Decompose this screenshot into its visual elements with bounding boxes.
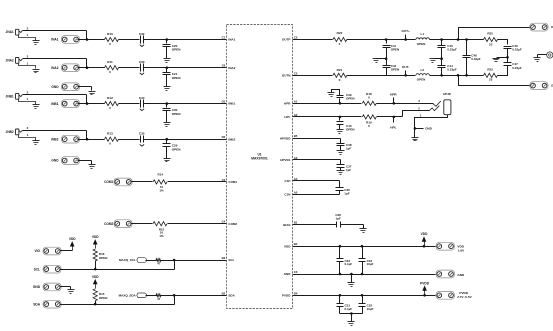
svg-text:10µF: 10µF (367, 307, 374, 311)
svg-text:OUTN: OUTN (282, 73, 291, 77)
svg-text:PVDD: PVDD (282, 293, 291, 297)
svg-text:10µF: 10µF (367, 262, 374, 266)
svg-text:VDD: VDD (92, 275, 99, 279)
svg-text:0: 0 (339, 78, 341, 82)
svg-text:HPL: HPL (284, 115, 290, 119)
svg-text:OPEN: OPEN (172, 48, 182, 52)
svg-text:C35: C35 (139, 132, 145, 136)
svg-text:B4: B4 (294, 242, 298, 246)
svg-text:A4: A4 (294, 177, 298, 181)
svg-text:GND: GND (51, 159, 59, 163)
svg-text:OUT-: OUT- (402, 65, 409, 69)
svg-text:B1: B1 (294, 221, 298, 225)
svg-text:R13: R13 (107, 132, 113, 136)
svg-text:47: 47 (157, 262, 161, 266)
svg-text:OPEN: OPEN (346, 97, 355, 101)
svg-text:SDA: SDA (228, 293, 235, 297)
svg-text:HPJK: HPJK (443, 92, 452, 96)
svg-text:R16: R16 (99, 252, 105, 256)
svg-text:R22: R22 (487, 32, 493, 36)
svg-text:OPEN: OPEN (99, 256, 108, 260)
svg-text:VDD: VDD (284, 244, 291, 248)
svg-text:C5: C5 (294, 71, 298, 75)
svg-text:INA2: INA2 (51, 66, 58, 70)
svg-text:INB1: INB1 (51, 102, 58, 106)
svg-text:0.22µF: 0.22µF (512, 66, 522, 70)
svg-text:JNB2: JNB2 (6, 130, 14, 134)
svg-text:INB2: INB2 (228, 137, 235, 141)
svg-text:B5: B5 (294, 134, 298, 138)
svg-text:1µF: 1µF (344, 191, 349, 195)
svg-text:MAX97001: MAX97001 (251, 157, 268, 161)
svg-text:COM1: COM1 (104, 180, 113, 184)
svg-text:1.8V: 1.8V (458, 249, 465, 253)
svg-text:C21: C21 (172, 72, 178, 76)
svg-text:C20: C20 (172, 44, 178, 48)
svg-text:INA1: INA1 (51, 38, 58, 42)
svg-text:0.33µF: 0.33µF (471, 57, 481, 61)
svg-text:MAXQ_SCL: MAXQ_SCL (119, 258, 136, 262)
svg-text:BIAS: BIAS (283, 223, 290, 227)
svg-text:OPEN: OPEN (172, 112, 182, 116)
svg-text:R15: R15 (99, 292, 105, 296)
svg-text:R23: R23 (487, 67, 493, 71)
svg-text:VDD: VDD (457, 245, 464, 249)
svg-text:HPR: HPR (390, 92, 397, 96)
svg-text:C4: C4 (222, 220, 226, 224)
svg-text:R12: R12 (107, 96, 113, 100)
svg-text:INB2: INB2 (51, 137, 58, 141)
svg-text:L2: L2 (421, 68, 425, 72)
svg-text:D4: D4 (294, 291, 298, 295)
svg-text:1µF: 1µF (346, 168, 351, 172)
svg-text:0: 0 (109, 106, 111, 110)
svg-text:MAXQ_SDA: MAXQ_SDA (119, 293, 137, 297)
svg-text:22: 22 (489, 78, 493, 82)
svg-text:A1: A1 (294, 99, 298, 103)
svg-text:OPEN: OPEN (391, 67, 400, 71)
svg-text:INA1: INA1 (228, 38, 235, 42)
svg-text:1µF: 1µF (335, 217, 340, 221)
svg-text:VDD: VDD (421, 232, 428, 236)
svg-text:22: 22 (489, 43, 493, 47)
svg-text:INB1: INB1 (228, 102, 235, 106)
svg-text:OPEN: OPEN (346, 128, 355, 132)
svg-text:C33: C33 (139, 60, 145, 64)
svg-text:HPVDD: HPVDD (280, 136, 291, 140)
svg-text:OPEN: OPEN (391, 47, 400, 51)
svg-text:1µF: 1µF (346, 147, 351, 151)
svg-text:VDD: VDD (92, 235, 99, 239)
svg-text:0.33µF: 0.33µF (447, 67, 457, 71)
svg-text:OUT+: OUT+ (402, 29, 411, 33)
svg-text:C30: C30 (172, 108, 178, 112)
svg-text:0.22µF: 0.22µF (512, 47, 522, 51)
svg-text:HPL: HPL (390, 126, 396, 130)
svg-text:R10: R10 (107, 32, 113, 36)
svg-text:D1: D1 (222, 100, 226, 104)
svg-text:1%: 1% (159, 234, 164, 238)
svg-text:JNA2: JNA2 (6, 58, 14, 62)
svg-text:GND: GND (425, 127, 433, 131)
svg-text:OPEN: OPEN (172, 147, 182, 151)
svg-text:A5: A5 (294, 191, 298, 195)
svg-text:C1N: C1N (284, 193, 290, 197)
svg-text:C2: C2 (294, 36, 298, 40)
svg-text:INA2: INA2 (228, 66, 235, 70)
svg-text:C1: C1 (222, 36, 226, 40)
svg-text:C32: C32 (139, 32, 145, 36)
svg-text:R21: R21 (337, 68, 343, 72)
svg-text:C3: C3 (294, 270, 298, 274)
svg-text:COM1: COM1 (228, 180, 237, 184)
svg-text:GND: GND (457, 273, 465, 277)
svg-text:1%: 1% (159, 188, 164, 192)
svg-text:GND: GND (33, 285, 41, 289)
svg-text:SDA: SDA (33, 302, 40, 306)
svg-text:GND: GND (51, 85, 59, 89)
svg-text:0.33µF: 0.33µF (447, 47, 457, 51)
svg-text:A2: A2 (294, 113, 298, 117)
svg-text:0.1µF: 0.1µF (345, 307, 353, 311)
svg-text:JNA1: JNA1 (6, 30, 14, 34)
svg-text:R14: R14 (158, 172, 164, 176)
svg-text:B2: B2 (222, 291, 226, 295)
svg-text:PVDD: PVDD (420, 281, 430, 285)
svg-text:0: 0 (109, 142, 111, 146)
svg-text:B3: B3 (222, 256, 226, 260)
svg-text:R11: R11 (107, 60, 113, 64)
svg-text:OPEN: OPEN (99, 296, 108, 300)
svg-text:0: 0 (339, 42, 341, 46)
svg-text:OUTP: OUTP (282, 38, 290, 42)
svg-text:VDD: VDD (69, 237, 76, 241)
svg-text:SCL: SCL (228, 258, 234, 262)
svg-text:0.1µF: 0.1µF (345, 262, 353, 266)
svg-text:COM2: COM2 (104, 222, 113, 226)
svg-text:C3: C3 (222, 178, 226, 182)
svg-text:0: 0 (109, 70, 111, 74)
svg-text:PVDD: PVDD (459, 291, 468, 295)
svg-text:U1: U1 (257, 152, 261, 156)
svg-text:A3: A3 (294, 156, 298, 160)
svg-text:OPEN: OPEN (417, 42, 426, 46)
svg-text:2.7V~5.5V: 2.7V~5.5V (457, 295, 472, 299)
svg-text:GND: GND (284, 272, 292, 276)
svg-text:VIO: VIO (35, 249, 41, 253)
svg-text:C6: C6 (222, 64, 226, 68)
svg-text:SCL: SCL (34, 267, 40, 271)
svg-text:C1P: C1P (285, 179, 291, 183)
svg-text:C34: C34 (139, 96, 145, 100)
svg-text:L1: L1 (421, 32, 425, 36)
svg-text:JNB1: JNB1 (6, 94, 14, 98)
svg-text:C29: C29 (172, 144, 178, 148)
svg-text:R20: R20 (337, 31, 343, 35)
svg-text:COM2: COM2 (228, 222, 237, 226)
svg-text:HPVSS: HPVSS (280, 158, 290, 162)
svg-text:47: 47 (157, 297, 161, 301)
svg-text:HPR: HPR (284, 101, 291, 105)
svg-text:0: 0 (109, 42, 111, 46)
svg-text:D2: D2 (222, 135, 226, 139)
svg-text:OPEN: OPEN (417, 78, 426, 82)
svg-text:OPEN: OPEN (172, 76, 182, 80)
